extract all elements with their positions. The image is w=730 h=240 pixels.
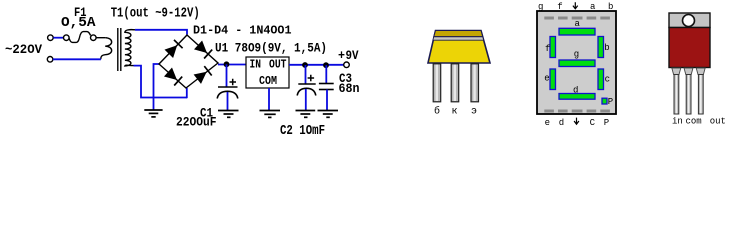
ground under C2 [296, 111, 316, 118]
wire fuse to primary [96, 37, 105, 39]
svg-text:68n: 68n [339, 82, 360, 96]
svg-text:э: э [471, 107, 477, 118]
wire bridge bottom corner down [186, 88, 188, 98]
wire U1 OUT to output [289, 64, 344, 66]
segment c [598, 69, 604, 90]
transistor leg 3 [471, 64, 479, 102]
ground under C3 [318, 111, 339, 118]
ground under U1 [260, 111, 281, 118]
regulator leg in shoulder [672, 68, 681, 75]
regulator 7809 package body [669, 28, 710, 68]
transistor package KT315 body [428, 31, 490, 64]
svg-text:com: com [686, 117, 702, 127]
transformer T1 core [117, 28, 119, 71]
wire bridge right to U1 IN [218, 64, 246, 66]
transformer T1 secondary winding [125, 30, 135, 66]
regulator leg com [686, 75, 691, 115]
svg-text:O,5A: O,5A [61, 15, 96, 31]
display bottom pin dashes [544, 110, 610, 113]
wire dot to C1 [226, 64, 228, 87]
svg-text:+: + [338, 48, 345, 63]
svg-text:C2 1OmF: C2 1OmF [280, 124, 325, 138]
wire C1 to ground [227, 92, 229, 110]
wire U1 COM to ground [268, 88, 270, 110]
wire bottom terminal to primary [53, 58, 101, 60]
svg-text:к: к [452, 107, 458, 118]
segment e [550, 69, 556, 90]
diode D2 upper-right [194, 41, 212, 59]
wire secondary top to bridge [135, 30, 187, 35]
segment a [559, 28, 595, 35]
svg-text:g: g [538, 2, 543, 12]
svg-text:OUT: OUT [269, 59, 287, 72]
transformer T1 primary winding [101, 38, 112, 60]
svg-text:COM: COM [259, 75, 277, 88]
svg-text:a: a [575, 19, 581, 29]
segment g [559, 60, 595, 67]
fuse F1 [64, 32, 97, 43]
wire dot to C3 [325, 65, 327, 83]
node input terminal top [48, 35, 54, 41]
node junction dot C1 [224, 61, 230, 67]
seven-segment display body [537, 11, 616, 114]
svg-text:e: e [544, 74, 549, 84]
op-amp U1 regulator box [246, 57, 289, 88]
node input terminal bottom [47, 57, 53, 63]
svg-text:e: e [545, 118, 550, 128]
svg-text:9V: 9V [346, 48, 359, 63]
svg-text:in: in [672, 117, 683, 127]
regulator 7809 package tab [669, 13, 710, 28]
svg-text:b: b [608, 2, 613, 12]
svg-text:~22OV: ~22OV [5, 42, 42, 57]
capacitor C3 [319, 84, 334, 90]
node junction dot C2 [302, 62, 308, 68]
wire C3 to ground [326, 90, 328, 111]
wire secondary bottom to rail [134, 66, 188, 98]
diode D1 upper-left [165, 40, 183, 58]
segment P decimal point [602, 98, 607, 104]
svg-text:d: d [573, 86, 578, 96]
svg-text:P: P [604, 118, 609, 128]
display top pin dashes [544, 17, 610, 20]
svg-text:22OOuF: 22OOuF [176, 115, 217, 130]
svg-text:c: c [605, 74, 610, 84]
diode D4 lower-right [194, 66, 212, 84]
ground under C1 [218, 111, 239, 118]
label C2 plus [308, 75, 315, 82]
svg-text:T1(out ~9-12V): T1(out ~9-12V) [111, 6, 200, 22]
node junction dot C3 [323, 62, 329, 68]
bridge rectifier D1-D4 diamond [159, 35, 218, 88]
regulator leg out [698, 75, 703, 115]
bottom pin arrow [574, 118, 579, 125]
capacitor C1 [217, 87, 238, 99]
diode D3 lower-left [164, 68, 182, 86]
svg-text:P: P [608, 97, 613, 107]
svg-text:D1-D4 - 1N4OO1: D1-D4 - 1N4OO1 [193, 23, 292, 37]
svg-text:a: a [590, 2, 596, 12]
wire dot to C2 [305, 65, 307, 84]
svg-text:IN: IN [250, 59, 262, 72]
transistor leg 2 [451, 64, 459, 102]
wire top terminal to fuse [53, 37, 63, 39]
regulator leg out shoulder [696, 68, 705, 75]
regulator leg com shoulder [684, 68, 693, 75]
regulator leg in [674, 75, 679, 115]
top pin-1 arrow [573, 2, 578, 9]
transistor leg 1 [433, 64, 441, 102]
svg-text:d: d [559, 118, 564, 128]
svg-text:g: g [574, 50, 579, 60]
svg-text:C: C [590, 118, 596, 128]
ground under bridge [144, 110, 162, 117]
svg-text:b: b [604, 43, 609, 53]
wire ground stem under bridge [153, 98, 155, 110]
svg-text:f: f [545, 44, 550, 54]
node output terminal [344, 62, 350, 68]
segment b [598, 37, 604, 58]
capacitor C2 [297, 84, 316, 96]
wire bridge left corner down [154, 64, 160, 98]
svg-text:б: б [434, 105, 440, 118]
svg-text:f: f [557, 2, 562, 12]
label C1 plus [230, 79, 237, 86]
svg-text:U1 78O9(9V, 1,5A): U1 78O9(9V, 1,5A) [215, 41, 327, 56]
segment d [559, 94, 595, 100]
svg-text:out: out [710, 117, 726, 127]
segment f [550, 37, 556, 58]
wire C2 to ground [305, 89, 307, 110]
